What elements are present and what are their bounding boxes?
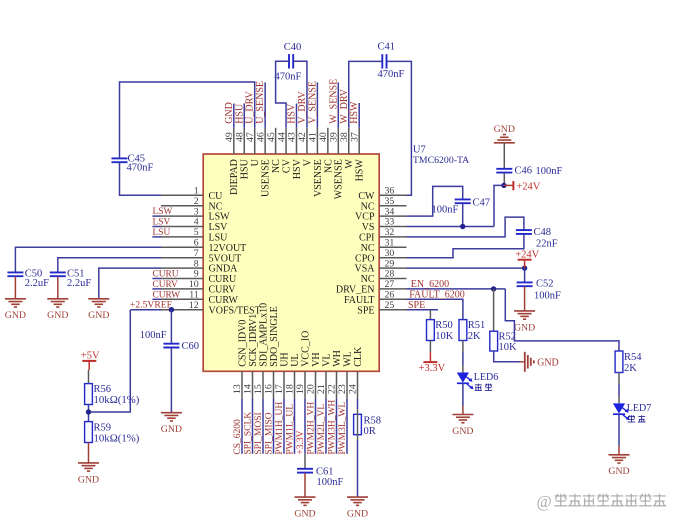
svg-text:U_DRV: U_DRV [245,90,256,123]
pin 37 HSW [358,128,360,154]
svg-text:UL: UL [290,353,301,366]
ground (inverted, above C46) [494,142,515,144]
node LSW label + wire [152,215,161,217]
svg-text:24: 24 [348,384,359,394]
wire VS riser to +24V [494,185,504,226]
wire net HSW [358,103,360,128]
pin 5 LSU [161,236,203,238]
svg-text:USENSE: USENSE [261,159,272,197]
svg-text:+24V: +24V [516,181,540,192]
svg-text:40: 40 [318,132,329,142]
svg-text:100nF: 100nF [536,166,563,177]
pin 1 CU [161,194,203,196]
LED6 (blue) [457,373,469,383]
pin 4 LSV [161,226,203,228]
svg-text:7: 7 [194,248,199,259]
capacitor C50 [7,271,23,273]
svg-text:15: 15 [253,384,264,394]
svg-text:R51: R51 [468,320,486,331]
wire C40 left to pin 44 CV (jog) [276,61,289,128]
pin 9 CURU [161,278,203,280]
svg-text:DIEPAD: DIEPAD [229,159,240,195]
wire C52 to ground [524,287,526,311]
pin 10 CURV [161,288,203,290]
pin 48 HSU [243,128,245,154]
svg-text:HSU: HSU [234,103,245,124]
pin 27 DRV_EN [379,288,406,290]
svg-text:CSN_IDV0: CSN_IDV0 [237,320,248,367]
ground (GNDA) [88,298,109,300]
svg-text:LSU: LSU [209,233,229,244]
svg-text:22: 22 [327,384,338,394]
wire GND to C46 [503,143,505,169]
pin 45 NC [275,128,277,154]
resistor R51 [459,320,467,341]
svg-text:41: 41 [308,132,319,142]
wire C48 bottom to CPO (pin30) [407,234,524,257]
svg-text:GND: GND [608,466,629,477]
svg-text:47: 47 [245,132,256,142]
svg-text:CPI: CPI [359,233,375,244]
svg-text:PWM2L_VL: PWM2L_VL [317,404,327,455]
node junction C47/VS [460,224,465,229]
wire R51 to LED6 [462,341,464,353]
pin 42 V [306,128,308,154]
wire VSA to C52 [524,268,526,282]
pin 33 VS [379,226,406,228]
svg-text:NC: NC [209,201,223,212]
wire VSA (pin29) to +24V [407,267,525,269]
svg-text:LSW: LSW [153,207,173,217]
ground (below LED6) [452,414,473,416]
wire C47 bottom to VS [462,204,464,227]
svg-text:U7: U7 [413,144,426,155]
svg-text:C48: C48 [534,227,552,238]
svg-text:44: 44 [276,132,287,142]
node junction C46/+24V [501,183,506,188]
ground (below C51) [47,298,68,300]
capacitor C41 [381,54,383,68]
svg-text:2.2uF: 2.2uF [25,278,49,289]
svg-text:12VOUT: 12VOUT [209,243,247,254]
svg-text:V_SENSE: V_SENSE [307,81,318,124]
pin 8 GNDA [161,267,203,269]
svg-text:V_DRV: V_DRV [297,90,308,123]
svg-text:PWM3L_WL: PWM3L_WL [338,402,348,455]
svg-text:W_SENSE: W_SENSE [328,79,339,124]
pin 39 WSENSE [337,128,339,154]
svg-text:HSW: HSW [355,159,366,182]
svg-text:VH: VH [311,352,322,366]
pin 32 CPI [379,236,406,238]
svg-text:GND: GND [294,509,315,520]
svg-text:100nF: 100nF [534,290,561,301]
svg-text:36: 36 [385,186,395,197]
svg-text:HSV: HSV [292,158,303,179]
svg-text:DRV_EN: DRV_EN [336,285,375,296]
wire VCP (pin34) over to C47 [407,186,463,216]
svg-text:CPO: CPO [355,253,374,264]
wire net W_SENSE [337,82,339,127]
capacitor C60 [163,343,179,345]
power +24V port (bar style) [504,184,513,186]
pin 21 VL [325,371,327,399]
svg-text:CU: CU [209,191,224,202]
svg-text:C41: C41 [378,42,396,53]
capacitor C48 [516,229,532,231]
svg-text:SPI_SCLK: SPI_SCLK [244,412,254,455]
svg-text:R52: R52 [499,332,517,343]
svg-text:C52: C52 [536,278,554,289]
svg-text:SPI_MISO: SPI_MISO [265,412,275,454]
svg-text:30: 30 [385,248,395,259]
svg-text:49: 49 [224,132,235,142]
svg-text:CURV: CURV [209,285,237,296]
svg-text:GND: GND [5,310,26,321]
LED7 (green) [613,403,625,413]
svg-text:WH: WH [332,350,343,367]
svg-text:31: 31 [385,238,395,249]
svg-text:28: 28 [385,269,395,280]
svg-text:470nF: 470nF [275,72,302,83]
svg-text:V: V [302,158,313,166]
resistor R54 [615,351,623,373]
svg-text:10K: 10K [499,342,518,353]
wire net PWM2L_VL [325,399,327,454]
wire C46 bottom to +24V node [503,173,505,185]
pin 29 VSA [379,267,406,269]
wire net PWM3L_WL [346,399,348,454]
wire R54 to LED7 [618,373,620,385]
pin 36 CW [379,194,406,196]
svg-text:@: @ [537,492,552,511]
svg-text:VL: VL [321,353,332,366]
svg-text:23: 23 [337,384,348,394]
svg-text:VSA: VSA [354,264,375,275]
pin 20 VH [315,371,317,399]
svg-text:GND: GND [161,424,182,435]
node junction EN/R52 [491,286,496,291]
wire SPE (pin25) [407,309,439,311]
resistor R50 [427,320,435,341]
svg-text:20: 20 [306,384,317,394]
ground (sideways, right of R52) [524,352,526,372]
svg-text:C60: C60 [182,341,200,352]
svg-text:LED7: LED7 [627,403,651,414]
svg-text:33: 33 [385,217,395,228]
svg-text:45: 45 [266,132,277,142]
pin 30 CPO [379,257,406,259]
wire net CS_6200 [241,399,243,454]
svg-text:10kΩ(1%): 10kΩ(1%) [94,394,140,406]
wire R58 to ground [357,440,359,497]
svg-text:25: 25 [385,300,395,311]
wire VS (pin33) [407,226,495,228]
svg-text:6: 6 [194,238,199,249]
svg-text:CURU: CURU [209,274,238,285]
wire net GND [233,104,235,128]
node CURU label + wire [152,278,161,280]
svg-text:2K: 2K [468,331,481,342]
svg-text:100nF: 100nF [432,204,459,215]
svg-text:W_DRV: W_DRV [339,88,350,124]
ground (below LED7) [609,454,630,456]
resistor R52 [490,331,498,351]
svg-text:39: 39 [329,132,340,142]
wire C50 to ground [14,277,16,299]
svg-text:CS_6200: CS_6200 [233,419,243,455]
svg-text:SPI_MOSI: SPI_MOSI [254,412,264,454]
wire SPE to R50 [429,310,431,320]
svg-text:VSENSE: VSENSE [313,159,324,197]
svg-text:CW: CW [358,191,375,202]
svg-text:TMC6200-TA: TMC6200-TA [413,155,469,166]
svg-text:35: 35 [385,196,395,207]
resistor R59 [85,422,93,443]
svg-text:+2.5VREF: +2.5VREF [130,300,172,311]
svg-text:GND: GND [494,124,515,135]
wire +5V to R56 [88,361,90,370]
wire 12VOUT (pin6) to C50 [15,247,161,272]
ground (below C50) [5,298,26,300]
svg-text:PWM3H_WH: PWM3H_WH [328,400,338,455]
svg-text:100nF: 100nF [317,477,344,488]
pin 12 VOFS/TEST [161,309,203,311]
node junction R56/R59 [86,409,91,414]
svg-text:LSV: LSV [153,218,171,228]
capacitor C61 [297,468,313,470]
svg-text:9: 9 [194,269,199,280]
wire net U_SENSE [264,82,266,127]
wire C41 right to pin 36 CW [387,61,412,195]
wire EN to R52 [493,289,495,331]
svg-text:GND: GND [347,509,368,520]
wire GNDA (pin8) to ground [99,268,161,299]
ground (below C60) [161,412,182,414]
pin 40 NC [327,128,329,154]
node junction pin12/C60 [169,307,174,312]
svg-text:LSU: LSU [153,228,171,238]
pin 2 NC [161,205,203,207]
svg-text:13: 13 [232,384,243,394]
ground (below R59) [78,462,99,464]
svg-text:SPE: SPE [357,305,374,316]
svg-text:27: 27 [385,279,395,290]
svg-text:12: 12 [189,300,199,311]
pin 13 CSN_IDV0 [241,371,243,399]
wire EN_6200 (pin27) [407,288,506,290]
wire 5VOUT (pin7) to C51 [58,258,161,273]
pin 17 UH [283,371,285,399]
svg-text:C47: C47 [473,198,491,209]
pin 46 USENSE [264,128,266,154]
svg-text:HSU: HSU [240,158,251,179]
svg-text:GND: GND [452,426,473,437]
svg-text:W: W [344,159,355,169]
svg-text:VS: VS [362,222,375,233]
wire net SPI_SCLK [252,399,254,454]
pin 41 VSENSE [316,128,318,154]
pin 11 CURW [161,298,203,300]
pin 3 LSW [161,215,203,217]
svg-text:U_SENSE: U_SENSE [255,81,266,124]
svg-text:GND: GND [514,322,535,333]
svg-text:46: 46 [255,132,266,142]
pin 43 HSV [296,128,298,154]
pin 14 SCK_IDRV1 [252,371,254,399]
wire CPI (pin32) to C48 top [407,217,524,237]
svg-text:43: 43 [287,132,298,142]
ground (below C52) [514,310,535,312]
capacitor C46 [496,168,512,170]
svg-text:WSENSE: WSENSE [334,159,345,199]
wire net HSV [296,104,298,128]
svg-text:+24V: +24V [515,250,539,261]
svg-text:VCC_IO: VCC_IO [300,331,311,367]
pin 7 5VOUT [161,257,203,259]
node LSV label + wire [152,226,161,228]
pin 22 WH [336,371,338,399]
svg-text:SCK_IDRV1: SCK_IDRV1 [248,314,259,367]
wire net V_SENSE [316,82,318,127]
svg-text:2.2uF: 2.2uF [67,278,91,289]
svg-text:5: 5 [194,227,199,238]
pin 44 CV [285,128,287,154]
svg-text:14: 14 [243,384,254,394]
wire EN_6200 Z-route to R54 [505,289,619,351]
wire R59 to ground [88,443,90,463]
node LSU label + wire [152,236,161,238]
ground (below R58) [347,496,368,498]
pin 6 12VOUT [161,246,203,248]
svg-text:21: 21 [316,384,327,394]
op-amp U7 TMC6200-TA body [203,154,379,371]
wire C60 to ground [170,348,172,413]
svg-text:19: 19 [295,384,306,394]
svg-text:GND: GND [88,310,109,321]
svg-text:470nF: 470nF [127,162,154,173]
capacitor C40 [288,54,290,68]
svg-text:42: 42 [297,132,308,142]
power +24V port #2 [524,260,526,268]
svg-text:470nF: 470nF [378,69,405,80]
svg-text:0R: 0R [364,426,376,437]
svg-text:C40: C40 [284,42,302,53]
svg-text:CURW: CURW [209,295,239,306]
svg-text:34: 34 [385,206,395,217]
svg-text:HSV: HSV [287,103,298,124]
svg-text:CURU: CURU [153,270,179,280]
LED7 color label (green CJK) [628,415,635,422]
svg-text:GND: GND [537,357,559,368]
wire C45 bottom to pin 1 CU [120,163,162,196]
capacitor C47 [455,198,471,200]
svg-text:37: 37 [349,132,360,142]
svg-text:+3.3V: +3.3V [296,430,306,454]
node junction VSA/+24V/C52 [522,265,527,270]
wire net PWM1L_UL [294,399,296,454]
wire net PWM3H_WH [336,399,338,454]
wire net HSU [243,104,245,128]
pin 31 NC [379,246,406,248]
wire R50 to +3.3V [429,341,431,353]
pin 47 U [254,128,256,154]
wire net SPI_MISO [273,399,275,454]
wire R56 to junction [88,405,90,422]
svg-text:GNDA: GNDA [209,264,239,275]
svg-text:GND: GND [47,310,68,321]
pin 49 DIEPAD [233,128,235,154]
pin 28 NC [379,278,406,280]
svg-text:PWM1L_UL: PWM1L_UL [286,404,296,455]
wire C40 right to pin 42 V, net V_DRV [293,61,307,128]
svg-text:CURV: CURV [153,280,179,290]
svg-text:10: 10 [189,279,199,290]
svg-text:32: 32 [385,227,395,238]
capacitor C52 [517,281,533,283]
pin 19 VCC_IO [304,371,306,399]
svg-text:PWM2H_VH: PWM2H_VH [307,402,317,455]
pin 35 NC [379,205,406,207]
wire junction to C60 [170,310,172,344]
svg-text:WL: WL [342,351,353,367]
wire LED7 to ground [618,414,620,446]
svg-text:29: 29 [385,258,395,269]
node CURV label + wire [152,288,161,290]
wire R52 bottom to side ground [494,351,520,362]
pin 38 W [348,128,350,154]
svg-text:SPE: SPE [408,300,425,311]
pin 16 SDO_SINGLE [273,371,275,399]
resistor R56 [85,384,93,405]
svg-text:18: 18 [285,384,296,394]
svg-text:CV: CV [281,158,292,173]
wire net PWM2H_VH [315,399,317,454]
svg-text:38: 38 [339,132,350,142]
pin 34 VCP [379,215,406,217]
svg-text:3: 3 [194,206,199,217]
capacitor C51 [50,271,66,273]
resistor R58 [354,414,362,434]
svg-text:CLK: CLK [353,346,364,367]
LED6 color label (blue CJK) [475,384,482,391]
wire +2.5VREF to R56/R59 divider [89,310,131,412]
svg-text:17: 17 [274,384,285,394]
wire net SPI_MOSI [262,399,264,454]
pin 25 SPE [379,309,406,311]
svg-text:NC: NC [361,274,375,285]
wire FAULT_6200 (pin26) to R51 [407,299,463,319]
pin 26 FAULT [379,298,406,300]
svg-text:NC: NC [271,159,282,173]
svg-text:NC: NC [323,159,334,173]
svg-text:SDI_AMPLx10: SDI_AMPLx10 [258,303,269,367]
svg-text:22nF: 22nF [536,239,558,250]
svg-text:SDO_SINGLE: SDO_SINGLE [269,306,280,367]
ground (below C61) [295,496,316,498]
pin 23 WL [346,371,348,399]
wire C61 to ground [304,473,306,497]
wire net +3.3V [304,399,306,454]
svg-text:GND: GND [78,474,99,485]
svg-text:FAULT_6200: FAULT_6200 [409,290,465,301]
wire C51 to ground [57,277,59,299]
svg-text:NC: NC [361,243,375,254]
svg-text:48: 48 [234,132,245,142]
power +3.3V port [423,361,437,363]
pin 24 CLK [357,371,359,399]
svg-text:NC: NC [361,201,375,212]
